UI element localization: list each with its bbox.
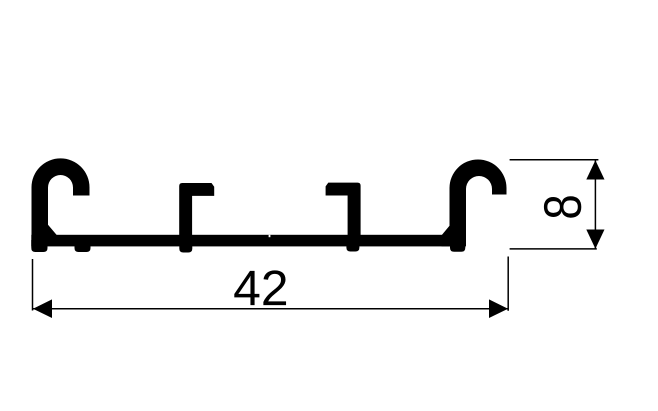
- tab T1 foot: [179, 240, 192, 253]
- tab T2: [326, 183, 361, 235]
- dim42 label: [234, 270, 286, 305]
- base top nick: [269, 235, 271, 237]
- dim8 bottom extension line: [510, 248, 597, 250]
- profile base bar: [31, 235, 465, 247]
- dim8 top arrow: [586, 160, 604, 179]
- dim8 top extension line: [510, 159, 599, 161]
- tab T1: [179, 183, 214, 235]
- dim42 line: [33, 308, 508, 310]
- dim8 bottom arrow: [586, 230, 604, 249]
- dim8 line: [594, 160, 596, 248]
- dim42 right arrow: [489, 299, 508, 318]
- dim42 left extension line: [32, 259, 34, 311]
- left foot: [31, 240, 47, 252]
- right foot: [450, 240, 465, 252]
- left hook: [32, 158, 90, 235]
- dim42 right extension line: [507, 257, 509, 311]
- second foot: [75, 240, 91, 252]
- right hook: [442, 160, 507, 247]
- dim8 label: [544, 196, 581, 217]
- dim42 left arrow: [33, 299, 52, 318]
- tab T2 foot: [346, 240, 359, 252]
